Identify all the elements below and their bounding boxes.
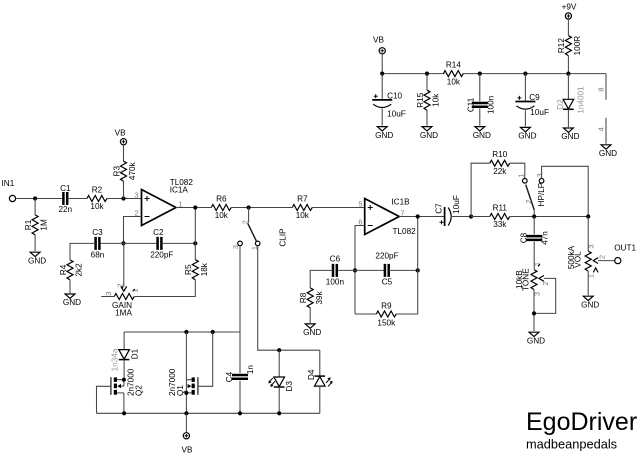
ground below C9 <box>521 127 531 131</box>
junction bottom rail Q1/VB <box>184 411 188 415</box>
svg-text:C3: C3 <box>92 228 103 237</box>
junction bottom rail C4 <box>238 411 242 415</box>
wire node C to C6 <box>337 269 355 271</box>
svg-text:C10: C10 <box>387 91 402 100</box>
ground below pin 4 <box>601 145 611 149</box>
LED D4 <box>315 377 326 387</box>
wire R8 to ground <box>309 308 311 323</box>
wire C11 to ground <box>479 109 481 126</box>
junction rail at C9 <box>523 72 527 76</box>
capacitor C7 10uF <box>444 207 446 226</box>
resistor R2 10k <box>87 196 107 202</box>
terminal +9V <box>565 13 571 19</box>
resistor R11 33k <box>490 214 510 220</box>
wire R2 to IC1A noninverting input <box>107 198 142 200</box>
wire D4 to bottom rail <box>319 386 321 413</box>
svg-text:GND: GND <box>375 131 393 140</box>
wire node A to C3 <box>99 242 123 244</box>
svg-text:Q1: Q1 <box>176 385 185 396</box>
capacitor C6 100n <box>333 264 337 277</box>
wire R9 up to IC1B output <box>396 217 417 315</box>
wire C2 to node B <box>161 242 195 244</box>
wire C4 to bottom rail <box>239 381 241 414</box>
wire rail to IC pin 8 stub <box>605 74 607 100</box>
resistor R5 18k <box>192 260 198 280</box>
svg-text:C11: C11 <box>466 97 475 112</box>
wire D1 to Q2 drain <box>123 360 125 380</box>
resistor R15 10k <box>424 90 430 110</box>
GAIN wiper arrow <box>121 286 127 291</box>
TONE wiper arrow <box>539 276 544 282</box>
wire TONE wiper loop to bottom <box>534 278 556 313</box>
svg-text:10k: 10k <box>447 77 461 86</box>
junction node C <box>353 268 357 272</box>
resistor R9 150k <box>376 311 396 317</box>
junction Q2 drain <box>122 378 126 382</box>
wire IC1A inverting input to feedback node <box>124 217 142 244</box>
wire node C to C5 <box>355 269 385 271</box>
wire IC pin 4 stub to ground <box>605 118 607 144</box>
svg-text:GND: GND <box>527 336 545 345</box>
wire rail to D1 <box>123 332 125 350</box>
wire VB to R3 <box>123 145 125 161</box>
wire Q1 gate up to rail <box>198 332 213 386</box>
junction node E <box>586 214 590 218</box>
svg-text:GND: GND <box>581 300 599 309</box>
terminal OUT1 <box>615 258 621 264</box>
svg-text:1: 1 <box>131 288 140 292</box>
svg-text:GND: GND <box>63 298 81 307</box>
svg-text:10k: 10k <box>432 93 441 107</box>
svg-text:D1: D1 <box>130 348 139 359</box>
wire power rail left segment <box>382 73 444 75</box>
junction rail at C10 <box>380 72 384 76</box>
terminal VB top-left <box>120 139 126 145</box>
svg-text:R10: R10 <box>492 150 507 159</box>
wire C3 to R4 <box>70 243 96 260</box>
svg-text:100R: 100R <box>573 36 582 56</box>
svg-text:GND: GND <box>561 132 579 141</box>
svg-text:C1: C1 <box>60 184 71 193</box>
wire R1 to ground <box>34 235 36 251</box>
wire Q1 drain column <box>185 332 187 413</box>
svg-text:R3: R3 <box>112 166 121 177</box>
junction bottom rail Q2 <box>122 411 126 415</box>
resistor R7 10k <box>292 205 312 211</box>
svg-text:R4: R4 <box>59 264 68 275</box>
svg-text:1n34a: 1n34a <box>111 348 120 371</box>
wire IN1 to C1 <box>16 198 64 200</box>
svg-text:GND: GND <box>599 149 617 158</box>
junction D3 top <box>277 348 281 352</box>
wire node D up to R10 <box>471 163 490 216</box>
svg-text:1: 1 <box>587 274 596 278</box>
svg-text:1n4001: 1n4001 <box>576 86 585 114</box>
svg-text:IC1A: IC1A <box>170 186 189 195</box>
junction bottom rail D3 <box>277 411 281 415</box>
svg-text:VB: VB <box>373 36 384 45</box>
wire to D3 <box>278 350 280 377</box>
svg-text:5: 5 <box>358 200 362 209</box>
svg-text:EgoDriver: EgoDriver <box>526 408 637 436</box>
svg-text:VB: VB <box>115 129 126 138</box>
svg-text:1MA: 1MA <box>115 308 132 317</box>
capacitor C11 100n <box>472 103 488 107</box>
junction Q1 gate rail <box>211 330 215 334</box>
switch HP/LP contact 1 <box>523 179 528 184</box>
potentiometer VOL 500kA <box>585 251 591 271</box>
wire node E to VOL <box>587 217 589 252</box>
switch HP/LP contact 3 <box>539 179 544 184</box>
capacitor C9 10uF <box>515 101 535 103</box>
junction node B <box>193 241 197 245</box>
wire IC1A output to R6 <box>176 207 211 209</box>
wire R4 to ground <box>69 280 71 293</box>
wire R10 to HP/LP contact 1 <box>510 163 525 178</box>
wire Q2 gate to bottom rail <box>97 386 111 413</box>
svg-text:1n: 1n <box>246 365 255 375</box>
ground below R4 <box>65 294 75 298</box>
junction IN1/R1 <box>33 196 37 200</box>
wire node A to GAIN wiper <box>123 243 125 286</box>
svg-text:33k: 33k <box>493 220 507 229</box>
junction IC1A output <box>193 205 197 209</box>
resistor R3 470k <box>121 161 127 181</box>
svg-text:C4: C4 <box>225 371 234 382</box>
svg-text:8: 8 <box>596 87 605 91</box>
junction node D <box>469 214 473 218</box>
wire R12 to power rail <box>567 56 569 74</box>
resistor R1 1M <box>32 215 38 235</box>
svg-text:C2: C2 <box>153 228 164 237</box>
junction HP/LP pin 2 node <box>532 214 536 218</box>
terminal IN1 <box>9 195 15 201</box>
svg-text:18k: 18k <box>200 262 209 276</box>
svg-text:Q2: Q2 <box>134 385 143 396</box>
svg-text:22k: 22k <box>493 167 507 176</box>
svg-text:68n: 68n <box>91 251 105 260</box>
svg-text:R15: R15 <box>416 92 425 107</box>
junction node at R3/pin3 <box>121 196 125 200</box>
VOL wiper arrow <box>593 258 598 264</box>
wire C9 to ground <box>524 110 526 126</box>
switch CLIP contact 1 <box>255 241 260 246</box>
wire rail to R15 <box>426 74 428 91</box>
svg-text:100n: 100n <box>326 277 345 286</box>
wire CLIP contact 1 down to LED rail <box>258 246 320 351</box>
diode D1 1n34a <box>119 350 130 360</box>
transistor Q1 2n7000 <box>197 377 199 395</box>
capacitor C5 220pF <box>385 264 389 277</box>
potentiometer TONE 10kB <box>531 270 537 290</box>
svg-text:3: 3 <box>587 244 596 248</box>
wire node A to C2 <box>124 242 158 244</box>
capacitor C8 47n <box>526 236 542 240</box>
junction rail at C11 <box>478 72 482 76</box>
wire C10 to ground <box>381 109 383 126</box>
svg-text:R9: R9 <box>381 302 392 311</box>
wire rail to C11 <box>479 74 481 102</box>
LED D3 <box>274 377 285 387</box>
wire C7 to tone network <box>451 216 472 218</box>
wire bottom rail to VB terminal <box>185 413 187 432</box>
wire node to C8 <box>533 217 535 235</box>
wire HP/LP contact 3 to node E <box>542 166 589 216</box>
junction rail at R15 <box>425 72 429 76</box>
resistor R6 10k <box>211 205 231 211</box>
wire IC1A output down to node B <box>194 208 196 244</box>
svg-text:GND: GND <box>420 131 438 140</box>
potentiometer GAIN 1MA <box>114 294 134 300</box>
wire C6 to R8 <box>310 270 333 288</box>
wire CLIP pin 2 stub <box>248 208 250 223</box>
svg-text:1: 1 <box>532 262 541 266</box>
svg-text:C7: C7 <box>434 203 443 214</box>
ground below D2 <box>564 128 574 132</box>
VOL taper mark <box>593 268 598 273</box>
wire HP/LP pin 2 stub <box>533 210 535 217</box>
junction TONE bottom <box>532 311 536 315</box>
svg-text:220pF: 220pF <box>375 252 398 261</box>
svg-text:TL082: TL082 <box>393 227 417 236</box>
wire R5 to GAIN pin 1 <box>135 280 196 297</box>
ground below R1 <box>30 252 40 256</box>
wire power rail right segment <box>462 73 606 75</box>
svg-text:4: 4 <box>596 127 605 131</box>
svg-text:C9: C9 <box>529 93 540 102</box>
wire R6 to R7 <box>231 207 292 209</box>
svg-text:100n: 100n <box>486 95 495 114</box>
svg-text:VOL: VOL <box>573 251 582 268</box>
svg-text:R7: R7 <box>297 194 308 203</box>
svg-text:10k: 10k <box>215 211 229 220</box>
op-amp IC1B TL082 <box>365 199 400 235</box>
svg-text:R6: R6 <box>216 194 227 203</box>
svg-text:D2: D2 <box>556 99 565 110</box>
svg-text:2k2: 2k2 <box>75 263 84 277</box>
wire TONE bottom to ground <box>533 290 535 332</box>
wire to D4 <box>319 350 321 376</box>
svg-text:HP/LP: HP/LP <box>537 182 546 206</box>
svg-text:C5: C5 <box>382 277 393 286</box>
wire IC1B inverting input down to R9 <box>355 226 365 315</box>
svg-text:D4: D4 <box>307 369 316 380</box>
wire bottom rail <box>97 412 320 414</box>
svg-text:R1: R1 <box>24 219 33 230</box>
svg-text:2: 2 <box>240 220 249 224</box>
resistor R12 100R <box>565 36 571 56</box>
svg-text:IN1: IN1 <box>2 179 15 188</box>
terminal VB bottom <box>183 433 189 439</box>
svg-text:10k: 10k <box>90 202 104 211</box>
ground below TONE <box>529 332 539 336</box>
wire R11 to node E <box>510 216 588 218</box>
resistor R8 39k <box>307 288 313 308</box>
svg-text:1M: 1M <box>40 219 49 231</box>
ground below VOL <box>583 296 593 300</box>
wire R7 to IC1B noninverting input <box>312 207 364 209</box>
svg-text:10uF: 10uF <box>387 110 406 119</box>
wire to R1 <box>34 199 36 215</box>
wire +9V to R12 <box>567 19 569 35</box>
svg-text:3: 3 <box>535 173 544 177</box>
wire D2 to ground <box>567 109 569 127</box>
wire D3 to bottom rail <box>278 387 280 413</box>
wire R15 to ground <box>426 110 428 125</box>
wire rail down to C4 <box>239 332 241 373</box>
svg-text:3: 3 <box>231 245 240 249</box>
wire C1 to R2 <box>67 198 87 200</box>
junction CLIP switch node <box>247 205 251 209</box>
junction Q1 source/body <box>184 391 188 395</box>
svg-text:CLIP: CLIP <box>279 228 288 247</box>
wire rail to D2 <box>567 74 569 100</box>
wire GAIN pin 3 stub <box>101 296 114 298</box>
junction rail at D2 <box>566 72 570 76</box>
junction C5/output branch <box>416 268 420 272</box>
wire node B to R5 <box>194 243 196 259</box>
capacitor C10 10uF <box>372 99 392 101</box>
svg-text:R11: R11 <box>493 203 508 212</box>
wire rail to C9 <box>524 74 526 102</box>
svg-text:39k: 39k <box>315 290 324 304</box>
wire C8 to TONE <box>533 242 535 269</box>
transistor Q2 2n7000 <box>110 377 112 395</box>
svg-text:470k: 470k <box>128 161 137 180</box>
wire CLIP contact 3 down to diode rail <box>239 246 241 332</box>
svg-text:2: 2 <box>597 255 606 259</box>
wire Q2 source down to bottom rail <box>123 393 125 413</box>
wire rail to C10 <box>381 74 383 100</box>
capacitor C3 68n <box>96 237 100 250</box>
wire node D to R11 <box>471 216 490 218</box>
svg-text:3: 3 <box>104 291 113 295</box>
svg-text:2: 2 <box>541 281 550 285</box>
svg-text:C6: C6 <box>330 254 341 263</box>
wire VOL wiper to OUT1 <box>598 260 615 262</box>
junction IC1B output <box>416 214 420 218</box>
switch CLIP lever <box>248 223 256 241</box>
capacitor C4 1n <box>232 375 248 379</box>
ground below C11 <box>475 127 485 131</box>
svg-text:10k: 10k <box>296 211 310 220</box>
ground below C10 <box>377 127 387 131</box>
svg-text:IC1B: IC1B <box>391 198 410 207</box>
svg-text:10uF: 10uF <box>530 108 549 117</box>
switch HP/LP lever <box>526 185 535 210</box>
diode D2 1n4001 <box>563 99 574 109</box>
resistor R4 2k2 <box>67 260 73 280</box>
svg-text:GND: GND <box>303 328 321 337</box>
svg-text:R14: R14 <box>446 60 461 69</box>
wire to R9 <box>355 313 376 315</box>
resistor R10 22k <box>490 160 510 166</box>
svg-text:R2: R2 <box>92 185 103 194</box>
svg-text:10uF: 10uF <box>452 195 461 214</box>
svg-text:GND: GND <box>28 256 46 265</box>
svg-text:R12: R12 <box>557 38 566 53</box>
terminal VB power rail <box>379 48 385 54</box>
svg-text:GND: GND <box>473 131 491 140</box>
wire clipping rail top <box>124 331 240 333</box>
wire R3 to input node <box>123 181 125 198</box>
capacitor C1 22n <box>63 192 67 205</box>
junction feedback node A <box>121 241 125 245</box>
ground below R8 <box>305 324 315 328</box>
svg-text:150k: 150k <box>377 319 396 328</box>
svg-text:C8: C8 <box>520 232 529 243</box>
svg-text:TONE: TONE <box>521 268 530 291</box>
svg-text:GND: GND <box>518 132 536 141</box>
wire VOL bottom to ground <box>587 271 589 295</box>
svg-text:22n: 22n <box>58 205 72 214</box>
wire C5 to output branch <box>389 269 418 271</box>
svg-text:VB: VB <box>182 446 193 455</box>
junction Q1 drain rail <box>184 330 188 334</box>
svg-text:OUT1: OUT1 <box>614 243 636 252</box>
svg-text:47n: 47n <box>540 231 549 245</box>
svg-text:R8: R8 <box>299 292 308 303</box>
ground below R15 <box>422 127 432 131</box>
svg-text:1: 1 <box>517 173 526 177</box>
svg-text:madbeanpedals: madbeanpedals <box>526 436 617 451</box>
resistor R14 10k <box>443 71 463 77</box>
svg-text:3: 3 <box>532 292 541 296</box>
svg-text:2: 2 <box>524 199 533 203</box>
op-amp IC1A TL082 <box>142 190 177 226</box>
svg-text:R5: R5 <box>184 264 193 275</box>
capacitor C2 220pF <box>158 237 162 250</box>
wire VB terminal to rail <box>381 54 383 74</box>
wire IC1B output to C7 <box>399 216 444 218</box>
svg-text:D3: D3 <box>285 381 294 392</box>
svg-text:220pF: 220pF <box>150 251 173 260</box>
svg-text:+9V: +9V <box>562 2 577 11</box>
svg-text:3: 3 <box>134 191 138 200</box>
switch CLIP contact 3 <box>238 241 243 246</box>
